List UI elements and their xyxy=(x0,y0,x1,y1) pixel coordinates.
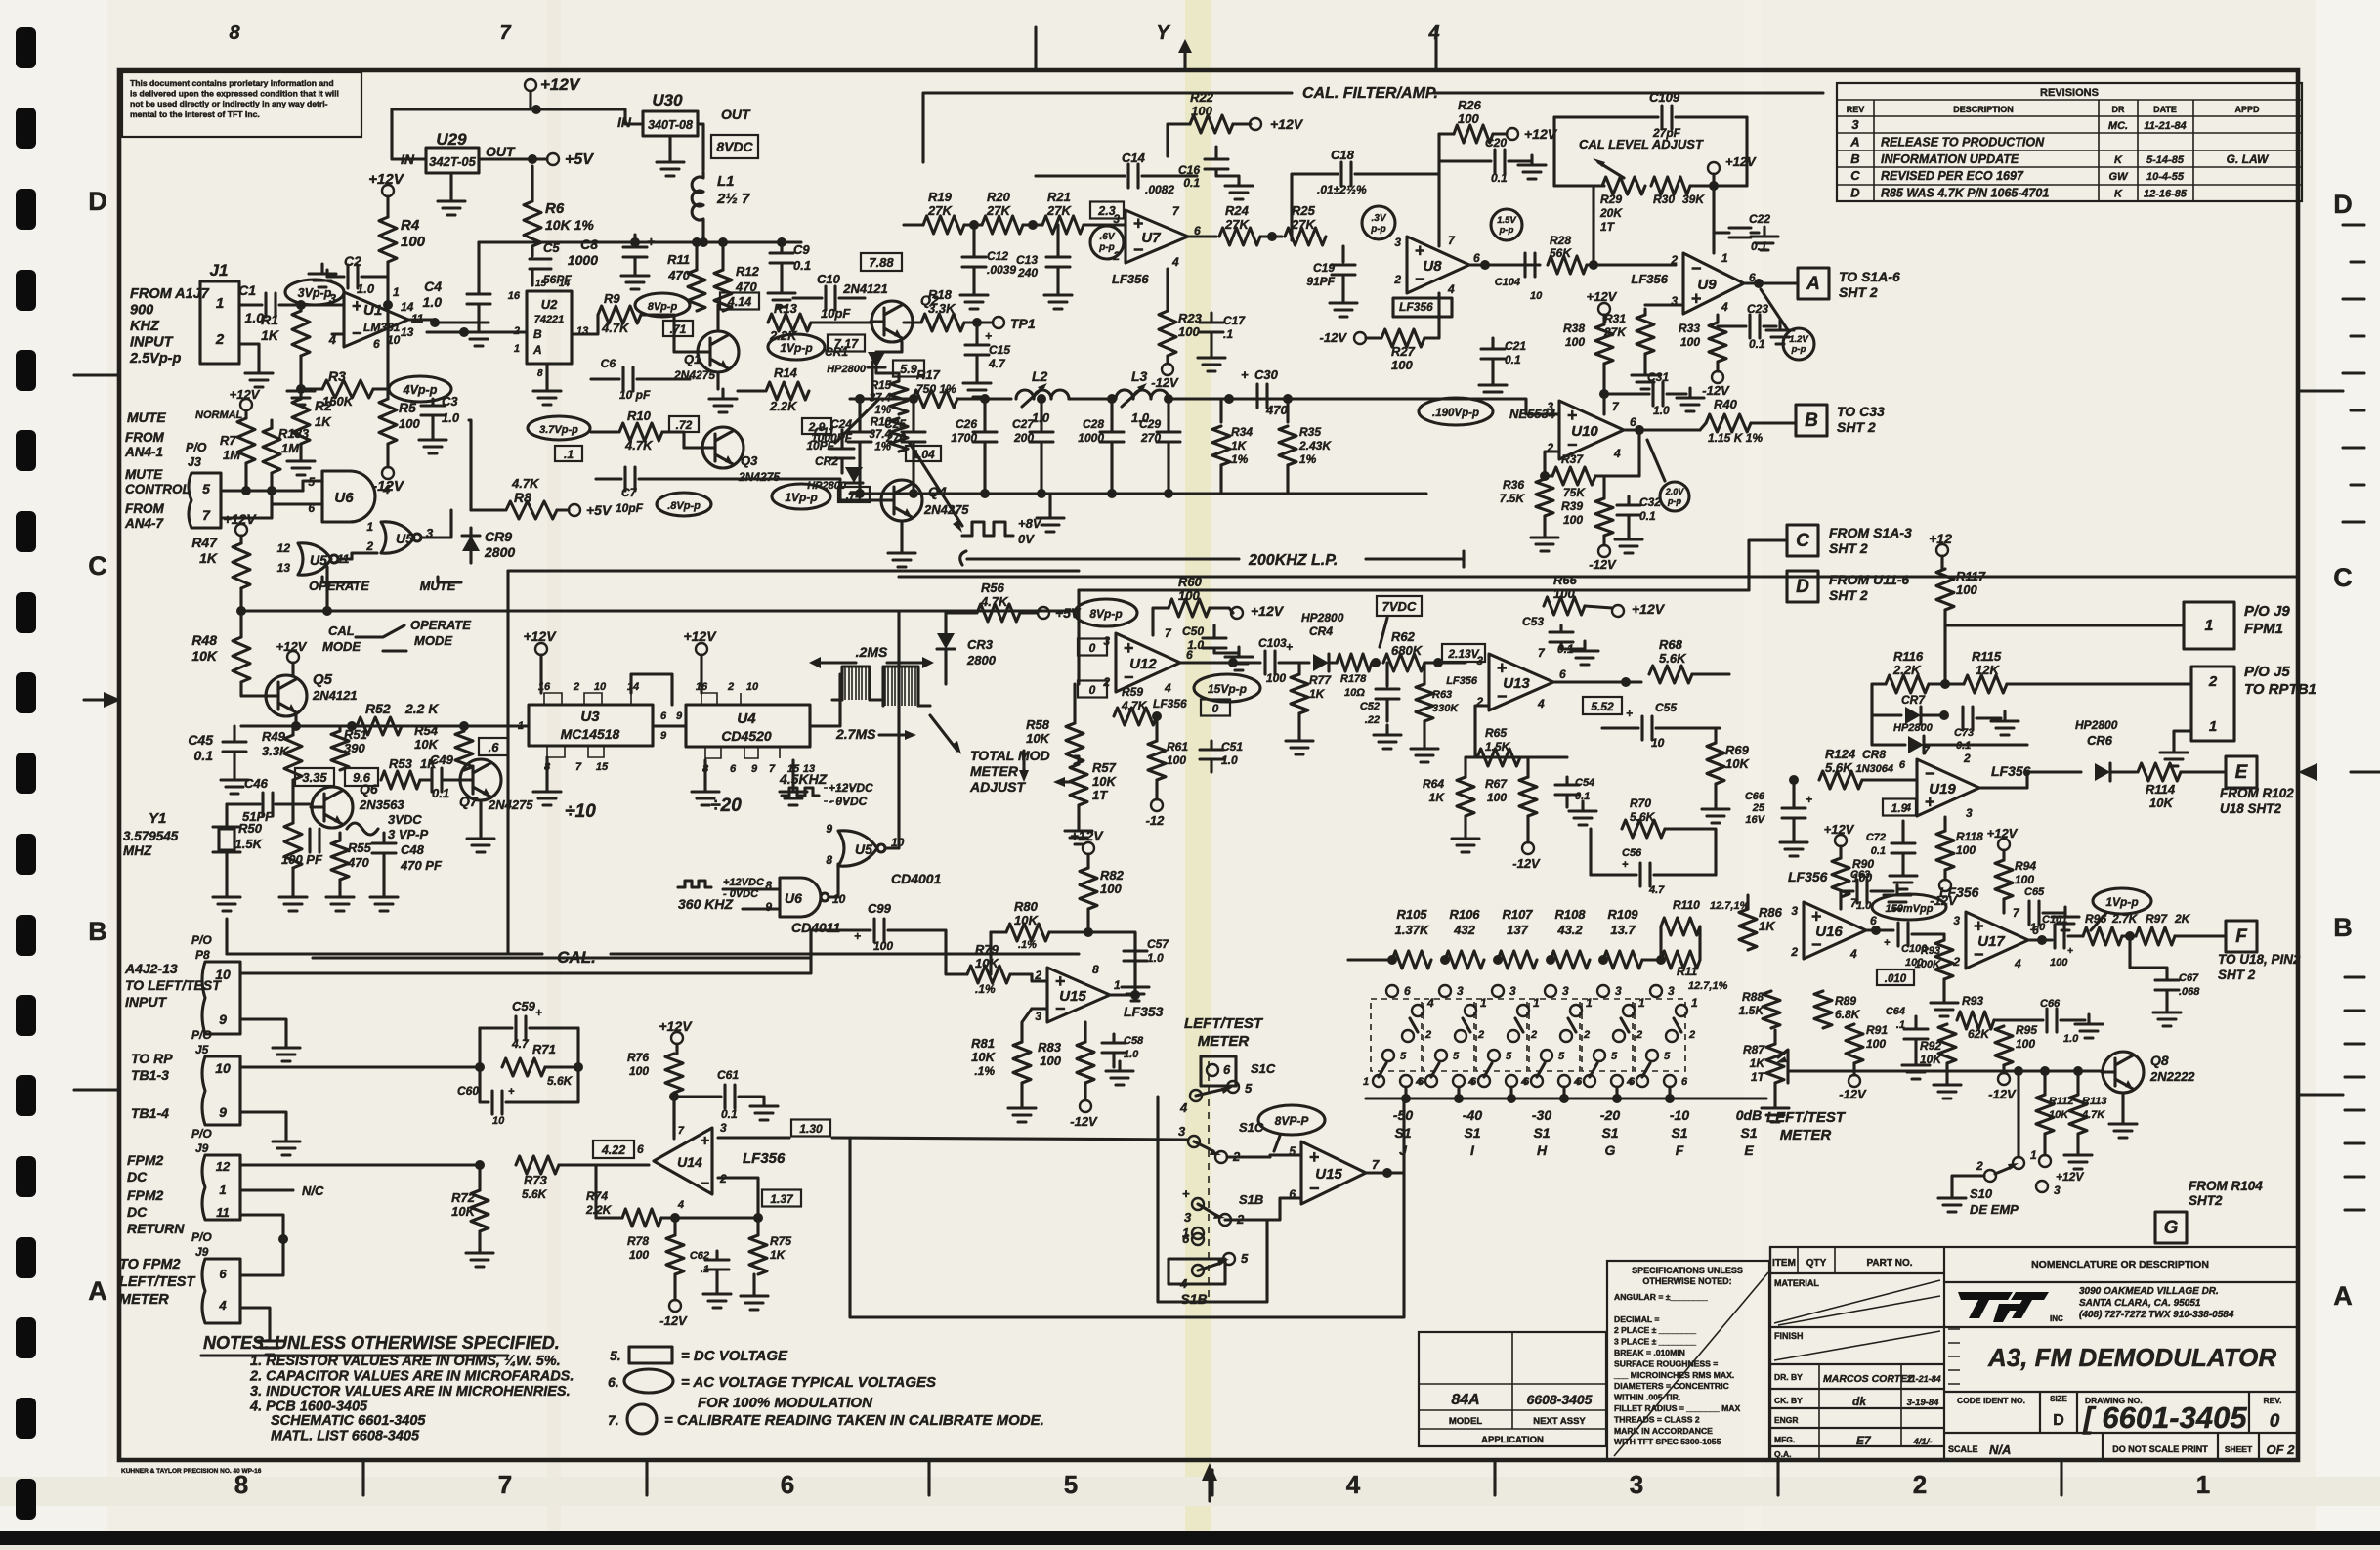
capacitor C6 xyxy=(623,367,633,391)
svg-text:3: 3 xyxy=(1615,984,1622,998)
svg-text:1.0: 1.0 xyxy=(1147,951,1164,965)
wire q block to filter xyxy=(872,397,879,400)
svg-text:CR9: CR9 xyxy=(485,529,512,544)
svg-text:SANTA CLARA, CA. 95051: SANTA CLARA, CA. 95051 xyxy=(2079,1298,2201,1309)
wire +12V R82 xyxy=(1083,842,1094,854)
capacitor C55 xyxy=(1642,716,1652,740)
svg-text:CD4011: CD4011 xyxy=(791,920,841,935)
wire U14 output line xyxy=(718,1136,789,1139)
svg-text:6: 6 xyxy=(637,1142,644,1156)
svg-text:ENGR: ENGR xyxy=(1774,1415,1799,1425)
svg-text:8VDC: 8VDC xyxy=(716,139,753,154)
svg-text:R2: R2 xyxy=(315,398,332,413)
svg-text:This document contains proriet: This document contains prorietary inform… xyxy=(130,78,334,88)
svg-text:C9: C9 xyxy=(793,242,810,257)
svg-text:7: 7 xyxy=(499,22,511,44)
svg-text:OPERATE: OPERATE xyxy=(309,579,369,593)
svg-text:2N4275: 2N4275 xyxy=(488,797,533,812)
svg-text:.71: .71 xyxy=(670,323,687,336)
svg-text:FINISH: FINISH xyxy=(1774,1331,1804,1341)
svg-text:R40: R40 xyxy=(1714,397,1738,411)
svg-text:+: + xyxy=(1124,638,1134,658)
svg-text:1K: 1K xyxy=(315,414,332,429)
svg-text:4.7K: 4.7K xyxy=(624,438,654,452)
svg-text:R20: R20 xyxy=(987,190,1011,204)
svg-text:10-4-55: 10-4-55 xyxy=(2146,171,2185,183)
dc callout .74 xyxy=(838,487,870,502)
svg-text:-12V: -12V xyxy=(1512,856,1541,871)
svg-text:1.30: 1.30 xyxy=(799,1122,823,1136)
svg-text:1.15 K 1%: 1.15 K 1% xyxy=(1708,431,1763,445)
svg-text:0V: 0V xyxy=(1018,532,1035,546)
svg-text:R60: R60 xyxy=(1178,575,1203,589)
svg-text:8: 8 xyxy=(826,853,832,867)
op-amp U15b xyxy=(1301,1141,1366,1204)
svg-text:REV.: REV. xyxy=(2263,1396,2281,1405)
wire U14 power xyxy=(672,1093,675,1139)
svg-text:270: 270 xyxy=(1140,431,1161,445)
svg-text:16V: 16V xyxy=(1745,814,1765,826)
svg-text:C18: C18 xyxy=(1331,148,1355,162)
svg-text:6: 6 xyxy=(781,1470,794,1499)
capacitor C12 xyxy=(972,225,975,256)
svg-text:TO FPM2: TO FPM2 xyxy=(119,1257,181,1272)
svg-text:100: 100 xyxy=(1956,582,1977,597)
svg-text:3: 3 xyxy=(1851,117,1859,132)
svg-text:.1: .1 xyxy=(1896,1019,1905,1031)
dc callout 1.9 xyxy=(1883,799,1916,816)
svg-text:R116: R116 xyxy=(1893,649,1924,664)
svg-text:R66: R66 xyxy=(1553,573,1578,587)
svg-text:13.7: 13.7 xyxy=(1610,923,1636,937)
svg-text:+12V: +12V xyxy=(1270,116,1304,132)
svg-text:10K 1%: 10K 1% xyxy=(545,217,594,233)
svg-text:R85 WAS 4.7K P/N 1065-4701: R85 WAS 4.7K P/N 1065-4701 xyxy=(1881,187,2049,200)
svg-text:6: 6 xyxy=(219,1267,227,1281)
wire J5 pin9 ground xyxy=(240,1112,286,1132)
svg-text:CAL LEVEL ADJUST: CAL LEVEL ADJUST xyxy=(1579,137,1704,151)
specifications block xyxy=(1607,1261,1769,1460)
svg-text:3: 3 xyxy=(1966,806,1973,820)
svg-text:R77: R77 xyxy=(1309,673,1332,687)
svg-text:REVISED PER ECO 1697: REVISED PER ECO 1697 xyxy=(1881,169,2024,183)
svg-text:240: 240 xyxy=(1017,266,1038,280)
svg-text:R64: R64 xyxy=(1423,777,1444,791)
ac callout 8Vp-p U12 xyxy=(1075,599,1137,626)
svg-text:5.6K: 5.6K xyxy=(1630,810,1656,824)
wire U12 out xyxy=(1180,661,1260,664)
svg-text:R3: R3 xyxy=(328,368,346,384)
svg-text:9: 9 xyxy=(765,900,772,914)
svg-text:0.1: 0.1 xyxy=(1505,353,1521,366)
svg-text:R34: R34 xyxy=(1231,425,1253,439)
waveform +8V xyxy=(962,522,1013,536)
svg-text:LEFT/TEST: LEFT/TEST xyxy=(1766,1109,1847,1126)
svg-text:R56: R56 xyxy=(981,581,1005,595)
nor gate U5a xyxy=(298,543,331,575)
svg-text:1Vp-p: 1Vp-p xyxy=(780,341,812,355)
svg-text:.1%: .1% xyxy=(975,982,996,996)
svg-text:METER: METER xyxy=(1780,1127,1832,1143)
resistor R178 xyxy=(1337,654,1372,671)
wire U3 power xyxy=(535,643,547,655)
dc callout 2.13V xyxy=(1442,644,1485,662)
svg-text:p-p: p-p xyxy=(1370,224,1386,235)
svg-text:R105: R105 xyxy=(1396,907,1427,922)
svg-text:+12V: +12V xyxy=(230,387,261,402)
capacitor C49 xyxy=(420,778,430,781)
resistor R118 xyxy=(1936,831,1954,870)
svg-text:5: 5 xyxy=(1064,1470,1078,1499)
svg-text:5: 5 xyxy=(1558,1051,1565,1062)
wire S1B to U15b xyxy=(1225,1198,1301,1220)
svg-text:U14: U14 xyxy=(677,1154,702,1170)
svg-text:C57: C57 xyxy=(1147,937,1169,951)
wire U15a out xyxy=(1110,993,1135,996)
ground under U30 xyxy=(668,136,671,152)
svg-text:6: 6 xyxy=(730,763,737,775)
resistors R112 R113 xyxy=(2043,1071,2046,1095)
svg-text:R83: R83 xyxy=(1038,1040,1062,1055)
svg-text:G. LAW: G. LAW xyxy=(2227,152,2270,166)
wire Q1 collector stub xyxy=(716,305,719,331)
svg-text:2.5Vp-p: 2.5Vp-p xyxy=(129,351,182,366)
filter cap bank xyxy=(858,399,861,430)
dc callouts zero U12 xyxy=(1078,639,1107,656)
svg-text:3: 3 xyxy=(1178,1124,1186,1139)
svg-text:RELEASE TO PRODUCTION: RELEASE TO PRODUCTION xyxy=(1881,135,2045,149)
svg-text:+12V: +12V xyxy=(683,628,717,644)
resistor R95 xyxy=(1995,1026,2013,1065)
svg-text:100: 100 xyxy=(1191,104,1212,118)
resistor R68 xyxy=(1649,666,1692,683)
svg-text:A: A xyxy=(1849,134,1859,149)
svg-text:C65: C65 xyxy=(2024,886,2045,898)
sine callout 3VDC 3VP-P xyxy=(347,823,378,835)
svg-text:2. CAPACITOR VALUES ARE IN MIC: 2. CAPACITOR VALUES ARE IN MICROFARADS. xyxy=(249,1369,574,1385)
svg-text:2.2 K: 2.2 K xyxy=(404,701,439,716)
svg-text:14: 14 xyxy=(627,681,639,693)
svg-text:A4J2-13: A4J2-13 xyxy=(124,961,178,976)
svg-text:1%: 1% xyxy=(1299,452,1317,466)
svg-text:CODE IDENT NO.: CODE IDENT NO. xyxy=(1957,1396,2025,1405)
svg-text:FROM U11-6: FROM U11-6 xyxy=(1829,572,1909,587)
svg-text:OUT: OUT xyxy=(721,107,751,122)
svg-text:1N3064: 1N3064 xyxy=(1855,763,1893,775)
svg-text:R47: R47 xyxy=(191,535,218,550)
svg-text:100: 100 xyxy=(1178,324,1200,339)
svg-text:2800: 2800 xyxy=(484,544,515,560)
wire U4 power xyxy=(696,643,707,655)
terminal +12V R112 xyxy=(2043,1134,2046,1155)
svg-text:B: B xyxy=(533,327,542,341)
nor gate U5 CD4001 xyxy=(838,831,877,866)
svg-text:R71: R71 xyxy=(532,1042,556,1056)
svg-text:2: 2 xyxy=(215,331,225,348)
svg-text:R7: R7 xyxy=(220,433,236,448)
svg-text:+12V: +12V xyxy=(1251,603,1285,619)
svg-text:CONTROL: CONTROL xyxy=(125,482,191,496)
wire U13 out xyxy=(1553,680,1641,683)
svg-text:C20: C20 xyxy=(1485,136,1507,150)
svg-text:R49: R49 xyxy=(262,729,286,744)
svg-text:6.: 6. xyxy=(608,1374,619,1390)
svg-text:4: 4 xyxy=(1849,947,1857,961)
square wave 360KHZ xyxy=(678,881,711,887)
svg-text:L2: L2 xyxy=(1032,368,1048,384)
svg-text:CAL. FILTER/AMP.: CAL. FILTER/AMP. xyxy=(1302,85,1438,102)
svg-text:+: + xyxy=(1806,793,1812,806)
svg-text:137: 137 xyxy=(1507,923,1528,937)
svg-text:2.0V: 2.0V xyxy=(1665,487,1685,496)
svg-text:R11: R11 xyxy=(1677,965,1697,978)
svg-text:10: 10 xyxy=(1530,290,1543,302)
capacitor C13 xyxy=(1056,225,1059,256)
capacitor C5 xyxy=(531,246,533,256)
cal bottom line xyxy=(227,952,542,955)
svg-text:OPERATE: OPERATE xyxy=(410,618,471,632)
capacitor C30 xyxy=(1257,384,1267,408)
svg-text:C30: C30 xyxy=(1254,367,1279,382)
svg-text:-12V: -12V xyxy=(659,1313,688,1328)
ladder bottom bus xyxy=(1366,1097,1766,1099)
svg-text:−: − xyxy=(1691,259,1702,279)
revisions table xyxy=(1837,83,2302,201)
svg-text:100: 100 xyxy=(399,416,420,431)
svg-text:100: 100 xyxy=(2016,1037,2035,1051)
svg-text:1T: 1T xyxy=(1092,788,1108,802)
svg-text:4: 4 xyxy=(1573,1076,1580,1088)
resistor R6 xyxy=(531,166,533,201)
transistor Q1 xyxy=(698,331,739,372)
svg-text:5.6K: 5.6K xyxy=(547,1074,574,1088)
svg-text:S1: S1 xyxy=(1464,1125,1480,1141)
svg-text:.1: .1 xyxy=(701,1264,709,1275)
svg-text:R78: R78 xyxy=(627,1234,649,1248)
svg-text:ITEM: ITEM xyxy=(1772,1258,1796,1269)
svg-text:10K: 10K xyxy=(451,1204,476,1219)
svg-text:13: 13 xyxy=(277,561,291,575)
proprietary notice box xyxy=(122,72,361,137)
svg-text:Q5: Q5 xyxy=(313,671,333,688)
diode CR4 xyxy=(1313,654,1329,671)
svg-text:C58: C58 xyxy=(1124,1035,1144,1047)
wire J9 xyxy=(1945,624,2184,626)
svg-text:1000: 1000 xyxy=(568,252,598,268)
wire U30 out to L1 xyxy=(698,124,703,136)
svg-text:1.0: 1.0 xyxy=(1221,753,1238,767)
svg-text:C50: C50 xyxy=(1182,624,1204,638)
svg-text:R36: R36 xyxy=(1503,478,1524,492)
svg-text:R26: R26 xyxy=(1458,98,1482,112)
svg-text:R8: R8 xyxy=(514,490,531,505)
svg-text:MHZ: MHZ xyxy=(123,843,152,858)
svg-text:R93: R93 xyxy=(1962,994,1983,1008)
ground under U4 xyxy=(703,760,706,782)
svg-text:+: + xyxy=(985,329,992,343)
svg-text:-12: -12 xyxy=(1146,813,1166,828)
svg-text:10K: 10K xyxy=(414,737,439,752)
svg-text:1000: 1000 xyxy=(1078,431,1104,445)
bottom black scan edge xyxy=(0,1531,2380,1545)
svg-text:LF356: LF356 xyxy=(1991,763,2031,779)
svg-text:8: 8 xyxy=(537,368,543,379)
svg-text:U30: U30 xyxy=(652,91,683,109)
wire U2 pin13 out xyxy=(572,315,598,334)
svg-text:+12V: +12V xyxy=(1725,154,1757,169)
svg-text:LEFT/TEST: LEFT/TEST xyxy=(1184,1015,1264,1032)
capacitor C50 xyxy=(1203,638,1226,648)
resistor R35 xyxy=(1286,399,1289,422)
svg-text:9: 9 xyxy=(660,730,667,742)
svg-text:D: D xyxy=(1796,577,1809,597)
svg-text:A: A xyxy=(1806,274,1820,294)
resistor R65 xyxy=(1477,749,1520,766)
svg-text:2.13V: 2.13V xyxy=(1447,647,1479,661)
svg-text:R81: R81 xyxy=(971,1036,995,1051)
terminal +12 R117 xyxy=(1936,544,1948,556)
svg-text:4: 4 xyxy=(1613,447,1621,460)
capacitor C22 xyxy=(1712,186,1715,233)
svg-text:INPUT: INPUT xyxy=(130,335,174,351)
svg-text:4: 4 xyxy=(2014,957,2021,970)
resistor R3 xyxy=(301,387,322,390)
svg-text:1K: 1K xyxy=(1429,791,1446,804)
svg-text:100: 100 xyxy=(1866,1037,1886,1051)
svg-text:13: 13 xyxy=(401,325,414,339)
svg-text:R73: R73 xyxy=(524,1173,548,1187)
wire P8 pin10 to C99 xyxy=(240,930,811,973)
resistor R116 xyxy=(1886,675,1929,693)
resistors R38 R31 R33 xyxy=(1598,303,1610,315)
fold alignment arrow bottom xyxy=(1208,1473,1211,1501)
svg-text:B: B xyxy=(2333,913,2353,942)
svg-text:C56: C56 xyxy=(1622,847,1642,859)
svg-text:LF356: LF356 xyxy=(1631,272,1668,286)
transistor Q2 xyxy=(871,301,913,342)
svg-text:+12V: +12V xyxy=(659,1018,693,1034)
ac callout 2.0V p-p xyxy=(1660,482,1689,511)
svg-text:KHZ: KHZ xyxy=(130,319,160,334)
svg-text:9: 9 xyxy=(751,763,758,775)
svg-text:10 pF: 10 pF xyxy=(619,388,651,402)
svg-text:C73: C73 xyxy=(1954,727,1974,739)
svg-text:LF356: LF356 xyxy=(1788,869,1828,884)
svg-text:INPUT: INPUT xyxy=(125,994,167,1010)
svg-text:R89: R89 xyxy=(1835,994,1856,1008)
resistor R80 xyxy=(1006,924,1049,941)
svg-text:-12V: -12V xyxy=(1839,1087,1867,1101)
resistor R26 xyxy=(1454,125,1493,143)
svg-text:CR7: CR7 xyxy=(1901,693,1926,707)
svg-text:Q1: Q1 xyxy=(684,352,701,366)
capacitor C73 xyxy=(1963,707,1973,730)
svg-text:C72: C72 xyxy=(1866,832,1886,843)
diode CR8 xyxy=(1872,715,1905,745)
op-amp U17 xyxy=(1966,912,2028,969)
svg-text:C53: C53 xyxy=(1522,615,1544,628)
resistor R28 xyxy=(1469,263,1540,266)
svg-text:FROM: FROM xyxy=(125,430,164,445)
svg-text:U16: U16 xyxy=(1815,924,1843,940)
svg-text:27K: 27K xyxy=(927,203,953,218)
svg-text:P/O: P/O xyxy=(191,933,212,947)
svg-text:1: 1 xyxy=(1691,996,1698,1010)
svg-text:+: + xyxy=(2067,946,2073,957)
svg-text:R35: R35 xyxy=(1299,425,1321,439)
svg-text:R31: R31 xyxy=(1604,312,1626,325)
resistor R18 TP1 xyxy=(904,321,921,323)
svg-text:IN: IN xyxy=(401,151,415,167)
svg-text:R39: R39 xyxy=(1561,499,1583,513)
wire S10 to base xyxy=(2017,1071,2019,1157)
svg-text:R92: R92 xyxy=(1920,1039,1941,1053)
svg-text:Q6: Q6 xyxy=(360,781,378,797)
capacitor C101 xyxy=(2055,925,2064,948)
flag D from U11-6 xyxy=(1787,571,1818,602)
op-amp U13 xyxy=(1489,654,1553,710)
svg-text:CK. BY: CK. BY xyxy=(1774,1396,1803,1405)
svg-text:J9: J9 xyxy=(195,1141,209,1155)
svg-text:1.0: 1.0 xyxy=(1187,638,1204,652)
svg-text:C1: C1 xyxy=(238,282,256,298)
svg-text:R22: R22 xyxy=(1190,90,1214,105)
terminal -12 U12 xyxy=(1155,780,1158,799)
svg-text:C60: C60 xyxy=(457,1084,479,1098)
terminal -12V under U9 xyxy=(1716,362,1719,371)
capacitor C2 xyxy=(361,275,388,278)
wire U1 to U2 xyxy=(427,330,527,333)
resistor R1 xyxy=(299,305,302,311)
resistor R49 xyxy=(291,726,294,735)
svg-text:1: 1 xyxy=(1480,996,1487,1010)
svg-text:K: K xyxy=(2114,154,2123,166)
svg-text:R18: R18 xyxy=(928,287,953,302)
capacitor C66 25/16V xyxy=(1782,808,1806,818)
resistor R91 xyxy=(1846,1024,1863,1063)
svg-text:C62: C62 xyxy=(690,1250,709,1262)
svg-text:1T: 1T xyxy=(1751,1070,1766,1084)
svg-text:C66: C66 xyxy=(2040,998,2061,1010)
svg-text:NEXT ASSY: NEXT ASSY xyxy=(1533,1416,1586,1427)
svg-text:INFORMATION UPDATE: INFORMATION UPDATE xyxy=(1881,152,2019,166)
svg-text:4.7: 4.7 xyxy=(988,357,1006,370)
svg-text:1.0: 1.0 xyxy=(423,294,443,310)
zone tick marks left xyxy=(74,375,119,1090)
one-shot U2 74221 xyxy=(527,291,572,364)
svg-text:5.6K: 5.6K xyxy=(522,1187,548,1201)
svg-text:S1: S1 xyxy=(1601,1125,1618,1141)
op-amp U10 NE5534 xyxy=(1559,401,1624,459)
svg-text:R25: R25 xyxy=(1292,203,1316,218)
svg-text:10pF: 10pF xyxy=(821,306,851,321)
svg-text:1: 1 xyxy=(1586,996,1593,1010)
connector J9 xyxy=(2184,602,2234,649)
resistor R114 xyxy=(2138,763,2181,781)
svg-text:U6: U6 xyxy=(334,490,354,506)
svg-text:C99: C99 xyxy=(868,901,892,916)
wire U1 inputs xyxy=(322,303,344,306)
resistor R61 xyxy=(1148,741,1166,780)
svg-text:470: 470 xyxy=(667,268,690,282)
svg-text:6: 6 xyxy=(1899,759,1906,771)
svg-text:3.3K: 3.3K xyxy=(262,744,290,758)
svg-text:DO NOT SCALE PRINT: DO NOT SCALE PRINT xyxy=(2112,1444,2208,1454)
dc callout .010 xyxy=(1877,969,1914,985)
svg-text:27K: 27K xyxy=(1046,203,1072,218)
svg-text:R96: R96 xyxy=(2085,912,2106,926)
svg-text:3: 3 xyxy=(720,1121,727,1135)
